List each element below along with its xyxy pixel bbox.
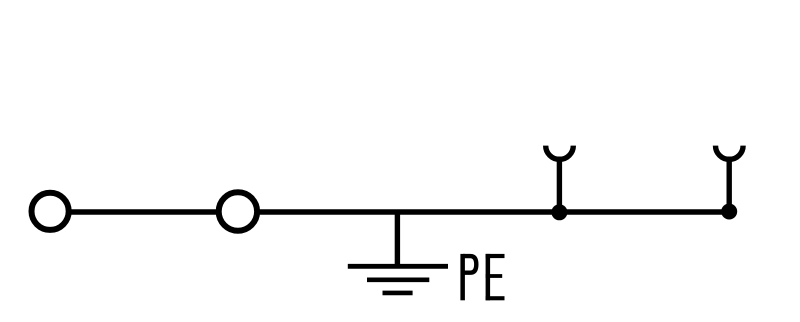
terminal contact middle [219,192,257,230]
wire main conductor [50,209,729,215]
test tap 2 fork [716,146,744,212]
label PE [460,254,504,300]
junction dot 2 [721,204,737,220]
ground PE symbol [348,266,448,293]
terminal contact left [31,193,68,230]
junction dot 1 [551,204,567,220]
wire ground stem [395,210,400,266]
test tap 1 fork [546,146,574,213]
